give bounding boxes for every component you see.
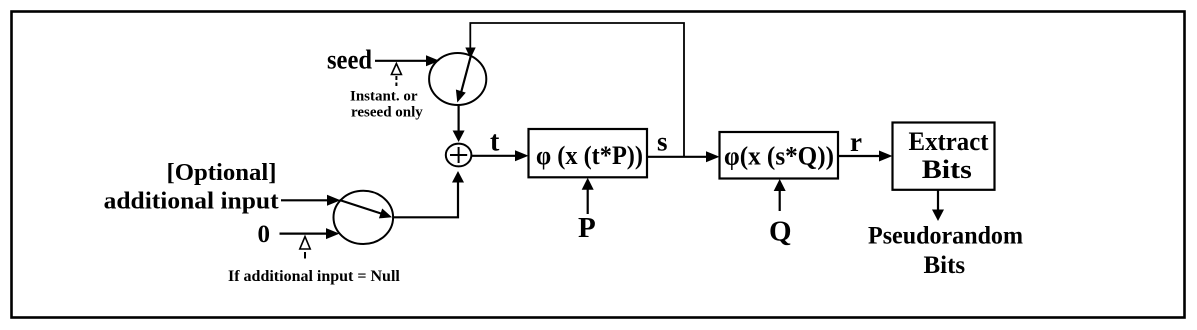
svg-text:Pseudorandom: Pseudorandom <box>868 222 1023 249</box>
wire SW1 down to adder <box>453 105 465 143</box>
note Instant. or reseed only <box>350 89 423 121</box>
svg-text:Extract: Extract <box>909 127 989 156</box>
wire seed into SW1 <box>375 55 440 66</box>
svg-text:Instant. or: Instant. or <box>350 89 418 105</box>
wire feedback from node s up and over to switch SW1 <box>465 23 684 157</box>
wire s: U1 to U2 <box>647 151 720 162</box>
block U1 phi(x(t*P)) <box>529 129 648 177</box>
switch SW1 (instantiate / reseed select) <box>429 53 486 105</box>
wire output from extract block <box>932 190 944 221</box>
wire r: U2 to extract block <box>838 151 893 162</box>
label Pseudorandom Bits <box>868 222 1023 279</box>
svg-text:r: r <box>850 127 862 157</box>
svg-text:P: P <box>578 212 596 244</box>
svg-text:φ(x (s*Q)): φ(x (s*Q)) <box>724 140 834 170</box>
switch SW2 (additional input / zero select) <box>334 191 394 244</box>
svg-text:Bits: Bits <box>923 252 965 279</box>
block U2 phi(x(s*Q)) <box>720 132 839 179</box>
svg-text:If additional input = Null: If additional input = Null <box>228 268 400 285</box>
wire Q into U2 <box>774 179 786 211</box>
wire t: adder to block U1 <box>471 150 528 161</box>
svg-text:reseed only: reseed only <box>351 105 423 121</box>
svg-text:0: 0 <box>258 221 271 248</box>
wire additional input into SW2 <box>281 195 341 206</box>
wire SW2 to adder <box>393 171 464 217</box>
svg-text:φ (x (t*P)): φ (x (t*P)) <box>536 140 643 170</box>
adder (+) <box>446 144 472 167</box>
svg-text:seed: seed <box>327 45 372 75</box>
svg-text:Bits: Bits <box>922 155 972 184</box>
svg-text:t: t <box>490 127 500 158</box>
svg-text:[Optional]: [Optional] <box>167 160 277 186</box>
callout arrow (hollow, dashed) Instant. or reseed only <box>391 64 401 87</box>
svg-text:s: s <box>657 127 668 157</box>
wire 0 into SW2 <box>280 228 340 239</box>
svg-text:Q: Q <box>769 216 792 248</box>
callout arrow (hollow, dashed) if additional input = null <box>300 237 310 259</box>
block U3 Extract Bits <box>893 123 995 190</box>
svg-text:additional input: additional input <box>104 189 279 215</box>
wire P into U1 <box>582 178 594 214</box>
